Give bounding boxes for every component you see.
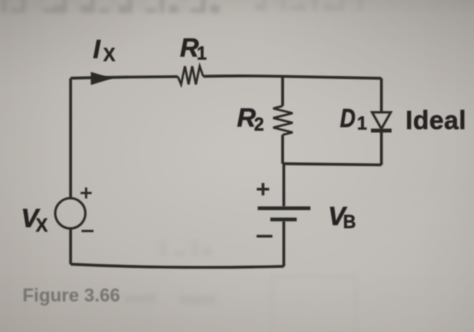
bleed-through text at top of page — [2, 0, 367, 13]
svg-text:2: 2 — [254, 114, 264, 134]
resistor R1 — [178, 66, 203, 84]
svg-text:voot: voot — [124, 290, 156, 307]
bleed-through marks right of caption — [124, 290, 216, 308]
svg-text:▄▌░ ▌▂▄░▌ ▄▂▌ ░▌: ▄▌░ ▌▂▄░▌ ▄▂▌ ░▌ — [255, 0, 367, 11]
svg-text:X: X — [36, 216, 48, 236]
svg-text:Figure 3.66: Figure 3.66 — [23, 285, 121, 306]
svg-text:Ideal: Ideal — [406, 105, 467, 135]
diode D1 triangle (hollow, pointing down) — [372, 112, 391, 129]
bleed-through row right of battery bottom — [152, 240, 212, 256]
wire: top-left segment from left corner to R1 — [71, 77, 178, 79]
diode D1 cathode bar — [371, 129, 392, 133]
svg-text:1: 1 — [197, 44, 207, 64]
svg-text:B: B — [343, 212, 356, 232]
voltage source VX circle — [55, 198, 85, 228]
svg-text:I: I — [93, 34, 101, 64]
svg-text:1: 1 — [357, 113, 367, 133]
plus sign at battery VB — [257, 183, 269, 195]
battery VB bottom plate (short) — [270, 218, 296, 222]
current arrow IX on top wire — [91, 72, 113, 85]
wire: bottom (left corner to battery branch) — [71, 264, 284, 267]
bleed-through rectangle bottom right — [272, 276, 356, 332]
svg-text:▌▂▌ ░▂▄▌░▄▌▂░▄▌░▂ ▌▄░ ▂▌▄: ▌▂▌ ░▂▄▌░▄▌▂░▄▌░▂ ▌▄░ ▂▌▄ — [2, 0, 220, 13]
wire: battery branch below battery — [282, 221, 285, 266]
svg-text:inoni: inoni — [180, 291, 216, 308]
wire: left side upper (corner down to source VX) — [69, 78, 72, 198]
wire: battery branch above battery — [282, 164, 285, 207]
wire: diode branch top (top-right corner down to triangle) — [380, 78, 383, 112]
minus sign at battery VB — [257, 235, 273, 238]
wire: R2 branch top (top wire down to zigzag) — [281, 76, 284, 106]
wire: R2 branch bottom (zigzag down to junction) — [281, 135, 284, 164]
battery VB top plate (long) — [258, 206, 311, 210]
plus sign at source VX — [81, 188, 92, 199]
wire: left side lower (source to bottom corner) — [69, 228, 72, 264]
svg-text:░▌ ▂░▌▄: ░▌ ▂░▌▄ — [152, 240, 212, 256]
wire: middle horizontal (junction to diode bottom) — [283, 164, 382, 165]
wire: top segment from R1 to top-right corner — [203, 76, 381, 78]
svg-text:X: X — [103, 45, 115, 65]
minus sign at source VX — [82, 230, 94, 232]
svg-text:D: D — [340, 103, 356, 133]
wire: diode branch bottom (bar down to corner) — [380, 131, 383, 165]
resistor R2 — [273, 106, 292, 135]
